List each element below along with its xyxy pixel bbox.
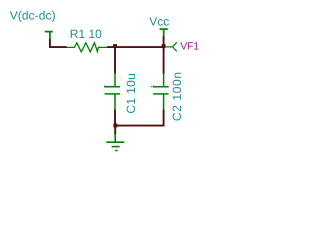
svg-text:V(dc-dc): V(dc-dc) xyxy=(10,9,56,23)
svg-text:C2 100n: C2 100n xyxy=(170,71,184,121)
svg-text:VF1: VF1 xyxy=(180,41,199,53)
svg-text:Vcc: Vcc xyxy=(149,14,169,28)
svg-text:C1 10u: C1 10u xyxy=(124,73,138,114)
svg-text:R1 10: R1 10 xyxy=(70,27,102,41)
